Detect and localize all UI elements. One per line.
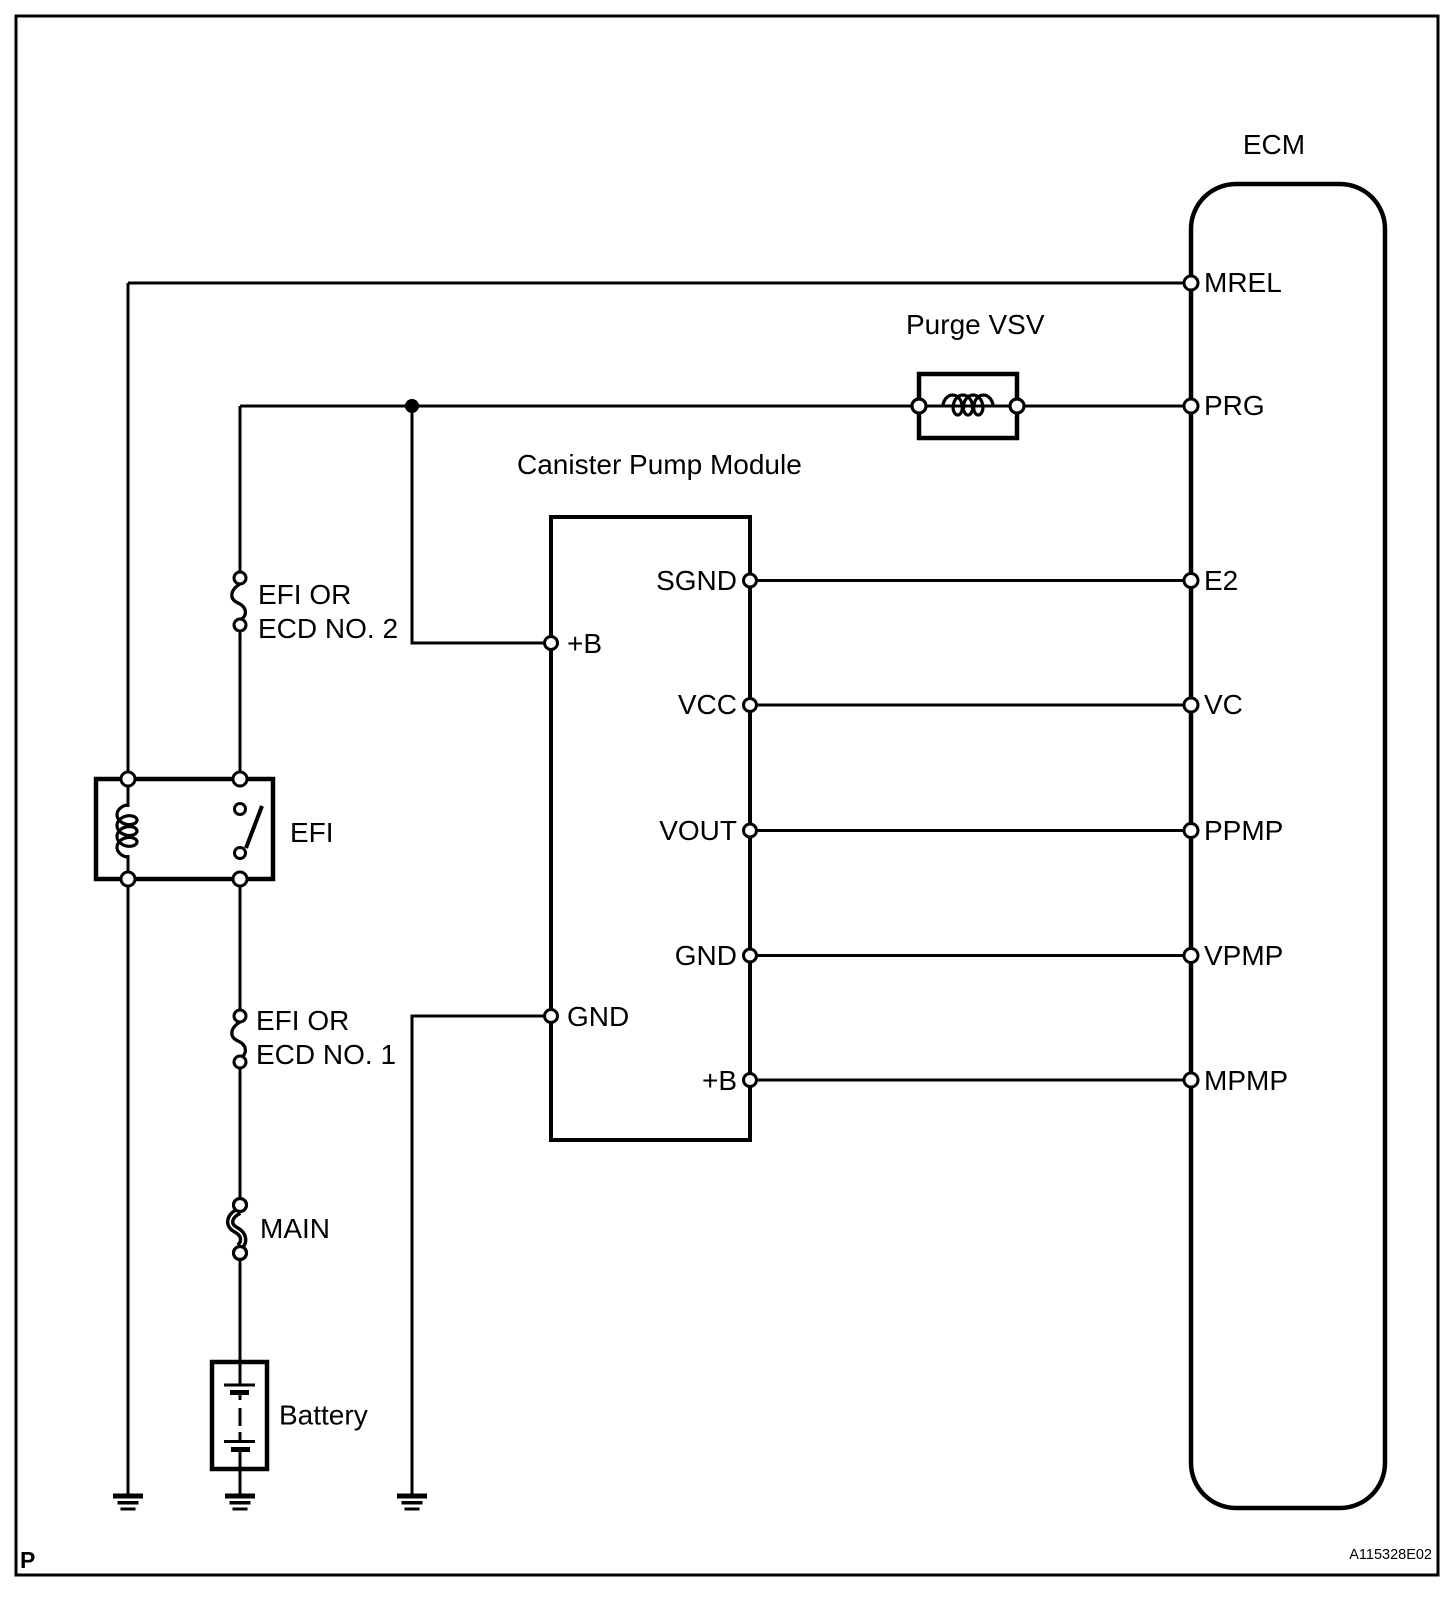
svg-text:GND: GND: [675, 940, 737, 971]
Purge VSV box: [919, 374, 1017, 438]
pin VC: [1184, 698, 1198, 712]
pin VOUT: [744, 824, 757, 837]
svg-text:EFI OR: EFI OR: [258, 579, 351, 610]
pin +B left: [545, 637, 558, 650]
svg-text:A115328E02: A115328E02: [1349, 1547, 1432, 1563]
relay terminal top-left: [121, 772, 135, 786]
battery plate long bottom: [224, 1440, 255, 1443]
svg-text:P: P: [20, 1547, 35, 1573]
relay EFI box: [96, 779, 273, 879]
pin E2: [1184, 574, 1198, 588]
ECM U1: [1191, 184, 1385, 1508]
ground left: [113, 1494, 143, 1511]
wire MREL horizontal: [128, 282, 1191, 285]
wire fuse chain segment 4: [239, 1062, 242, 1205]
wire fuse chain segment 5: [239, 1253, 242, 1362]
svg-text:Battery: Battery: [279, 1400, 368, 1431]
wire +B branch: [412, 406, 551, 643]
fuse EFI OR ECD NO.2 terminal top: [234, 572, 246, 584]
svg-text:MPMP: MPMP: [1204, 1065, 1288, 1096]
wire fuse chain segment 3: [239, 880, 242, 1016]
svg-text:VPMP: VPMP: [1204, 940, 1283, 971]
relay switch blade: [246, 806, 262, 848]
svg-text:GND: GND: [567, 1001, 629, 1032]
svg-text:PRG: PRG: [1204, 390, 1265, 421]
wire GND to VPMP: [750, 954, 1191, 957]
wire MREL vertical lower to ground: [127, 855, 130, 1494]
svg-text:SGND: SGND: [656, 565, 737, 596]
wire MREL vertical upper: [127, 283, 130, 807]
svg-text:ECD NO. 2: ECD NO. 2: [258, 613, 398, 644]
svg-text:PPMP: PPMP: [1204, 815, 1283, 846]
Purge VSV wire inside: [919, 405, 1017, 408]
svg-text:+B: +B: [702, 1065, 737, 1096]
fusible link MAIN terminal top: [234, 1199, 247, 1212]
pin GND right: [744, 949, 757, 962]
relay terminal bottom-right: [233, 872, 247, 886]
svg-text:ECD NO. 1: ECD NO. 1: [256, 1039, 396, 1070]
Purge VSV coil L1: [943, 395, 993, 415]
wire fuse chain segment 1: [239, 406, 242, 578]
relay coil: [117, 805, 137, 857]
battery plate short top: [230, 1390, 249, 1395]
wire VOUT to PPMP: [750, 829, 1191, 832]
wire PRG horizontal: [240, 405, 1191, 408]
pin VCC: [744, 699, 757, 712]
svg-text:MREL: MREL: [1204, 267, 1282, 298]
battery stub bottom: [239, 1432, 242, 1440]
pin PPMP: [1184, 824, 1198, 838]
svg-text:VC: VC: [1204, 689, 1243, 720]
battery box: [212, 1362, 267, 1469]
fusible link MAIN squiggle: [230, 1211, 243, 1247]
svg-text:ECM: ECM: [1243, 129, 1305, 160]
svg-text:EFI OR: EFI OR: [256, 1005, 349, 1036]
battery top lead: [239, 1362, 242, 1385]
fuse EFI OR ECD NO.1 terminal bottom: [234, 1056, 246, 1068]
wire GND branch: [412, 1016, 551, 1494]
battery plate long top: [224, 1384, 255, 1387]
battery dash: [239, 1408, 242, 1426]
svg-text:VOUT: VOUT: [659, 815, 737, 846]
svg-text:VCC: VCC: [678, 689, 737, 720]
relay terminal bottom-left: [121, 872, 135, 886]
svg-text:Canister Pump Module: Canister Pump Module: [517, 449, 802, 480]
wire VCC to VC: [750, 704, 1191, 707]
node junction PRG/+B: [405, 399, 419, 413]
Purge VSV terminal left: [912, 399, 926, 413]
svg-text:E2: E2: [1204, 565, 1238, 596]
battery stub top: [239, 1394, 242, 1400]
ground canister: [397, 1494, 427, 1511]
wire fuse chain segment 2: [239, 625, 242, 781]
svg-text:EFI: EFI: [290, 817, 334, 848]
svg-text:+B: +B: [567, 628, 602, 659]
pin PRG: [1184, 399, 1198, 413]
fusible link MAIN terminal bottom: [234, 1247, 247, 1260]
svg-text:MAIN: MAIN: [260, 1213, 330, 1244]
fuse EFI OR ECD NO.1 terminal top: [234, 1010, 246, 1022]
pin VPMP: [1184, 949, 1198, 963]
pin +B right: [744, 1074, 757, 1087]
fuse EFI OR ECD NO.2 squiggle: [232, 584, 246, 620]
wire battery to ground: [239, 1469, 242, 1494]
wire SGND to E2: [750, 579, 1191, 582]
svg-text:Purge VSV: Purge VSV: [906, 309, 1045, 340]
relay terminal top-right: [233, 772, 247, 786]
Purge VSV terminal right: [1010, 399, 1024, 413]
Canister Pump Module box: [551, 517, 750, 1140]
battery plate short bottom: [231, 1447, 250, 1452]
pin SGND: [744, 574, 757, 587]
ground battery: [225, 1494, 255, 1511]
pin MPMP: [1184, 1073, 1198, 1087]
battery bottom lead: [239, 1452, 242, 1469]
pin MREL: [1184, 276, 1198, 290]
pin GND left: [545, 1010, 558, 1023]
wire +B to MPMP: [750, 1079, 1191, 1082]
fuse EFI OR ECD NO.1 squiggle: [232, 1022, 246, 1058]
relay switch circle top: [235, 804, 246, 815]
relay switch circle bottom: [235, 848, 246, 859]
fuse EFI OR ECD NO.2 terminal bottom: [234, 619, 246, 631]
